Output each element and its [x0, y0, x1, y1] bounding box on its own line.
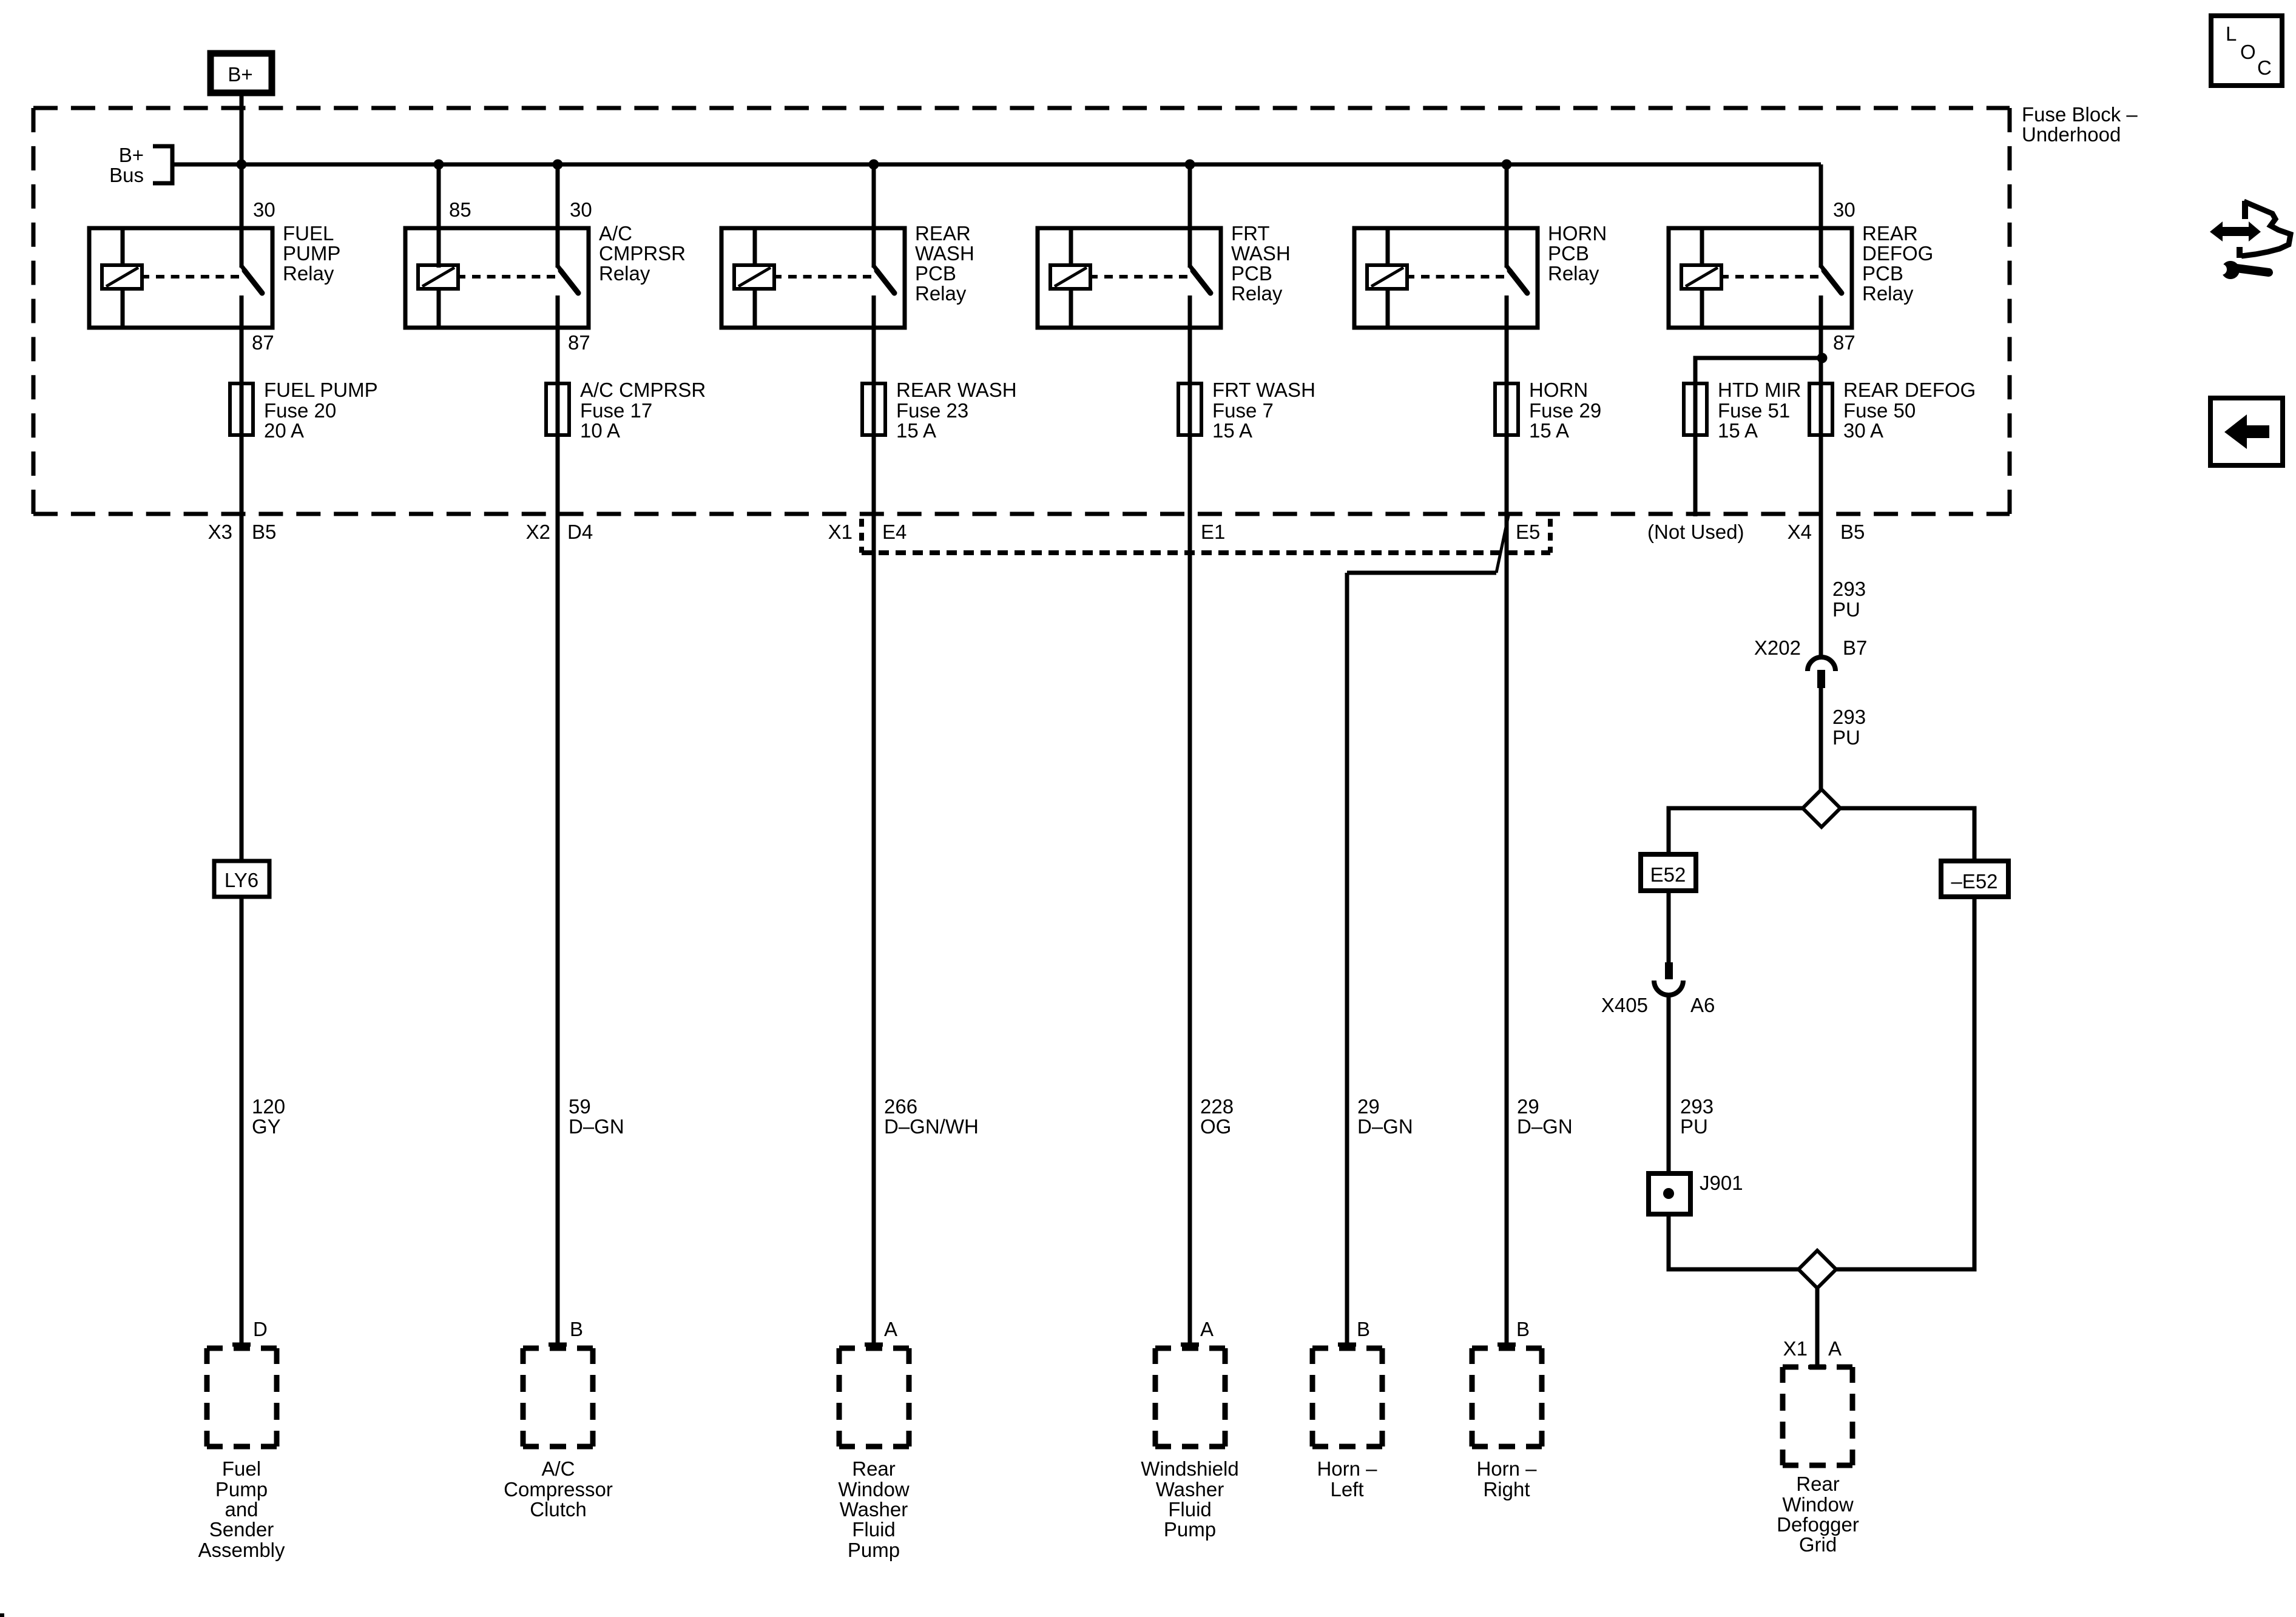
- svg-text:Fluid: Fluid: [852, 1518, 896, 1541]
- fuse FUEL PUMP Fuse 20 20 A: [230, 383, 253, 435]
- svg-text:Pump: Pump: [215, 1478, 268, 1501]
- svg-text:X202: X202: [1754, 636, 1801, 659]
- svg-text:B: B: [1357, 1318, 1370, 1340]
- svg-text:PU: PU: [1832, 726, 1860, 749]
- terminal bar: [1338, 1343, 1356, 1347]
- svg-text:Grid: Grid: [1799, 1533, 1837, 1556]
- wire X202 to splice diamond: [1819, 688, 1823, 791]
- wire B+ bus horizontal: [172, 163, 1821, 167]
- svg-text:293: 293: [1832, 706, 1866, 728]
- svg-text:120: 120: [252, 1095, 285, 1118]
- svg-text:A: A: [1200, 1318, 1214, 1340]
- svg-text:X3: X3: [208, 521, 232, 543]
- wire bus drop to horn relay pin 30: [1505, 164, 1509, 268]
- node bus junction at fuel pump relay: [237, 160, 247, 170]
- wire B+ feed down to bus and fuel pump relay pin 30: [240, 96, 244, 268]
- svg-text:(Not Used): (Not Used): [1647, 521, 1744, 543]
- terminal bar: [1808, 1365, 1826, 1369]
- component box -E52: [1941, 861, 2008, 897]
- label REAR DEFOG PCB Relay: [1862, 222, 1933, 305]
- svg-text:A/C: A/C: [541, 1457, 575, 1480]
- svg-text:15 A: 15 A: [1718, 419, 1758, 442]
- relay REAR DEFOG PCB Relay: [1669, 228, 1852, 328]
- label REAR WASH PCB Relay: [915, 222, 974, 305]
- svg-text:REAR: REAR: [915, 222, 971, 245]
- svg-text:FRT: FRT: [1231, 222, 1270, 245]
- label wire circuit 29: [1517, 1095, 1573, 1138]
- fuse HTD MIR Fuse 51 15 A: [1684, 383, 1707, 435]
- svg-text:59: 59: [569, 1095, 591, 1118]
- svg-text:Relay: Relay: [1231, 282, 1283, 305]
- svg-text:Washer: Washer: [1156, 1478, 1224, 1501]
- svg-text:Bus: Bus: [109, 164, 144, 186]
- svg-text:30: 30: [1833, 198, 1855, 221]
- wire bus drop to A/C relay pin 30: [556, 164, 560, 268]
- svg-text:Windshield: Windshield: [1141, 1457, 1238, 1480]
- component A/C Compressor Clutch dashed box: [523, 1346, 593, 1351]
- svg-text:15 A: 15 A: [896, 419, 936, 442]
- svg-text:Fuse 23: Fuse 23: [896, 399, 968, 422]
- svg-text:Relay: Relay: [1548, 262, 1599, 285]
- wire branch to HTD MIR fuse 51: [1695, 358, 1822, 516]
- svg-text:PU: PU: [1832, 598, 1860, 621]
- svg-text:228: 228: [1200, 1095, 1234, 1118]
- node bus junction at rear wash relay: [869, 160, 879, 170]
- svg-text:E4: E4: [882, 521, 907, 543]
- component Rear Window Defogger Grid dashed box: [1783, 1365, 1852, 1370]
- icon back arrow box: [2210, 398, 2283, 465]
- terminal bar: [1181, 1343, 1199, 1347]
- label wire circuit 293 PU (lower): [1680, 1095, 1714, 1138]
- svg-text:A6: A6: [1690, 994, 1715, 1016]
- label A/C CMPRSR Relay: [599, 222, 686, 285]
- svg-text:D: D: [253, 1318, 268, 1340]
- svg-text:Underhood: Underhood: [2022, 123, 2121, 146]
- wire frt wash relay through fuse 7 to connector E1: [1188, 328, 1192, 1345]
- wire horn left branch horizontal: [1347, 571, 1496, 575]
- svg-text:Fuse 50: Fuse 50: [1843, 399, 1916, 422]
- svg-text:L: L: [2226, 22, 2237, 45]
- svg-text:Fuse 20: Fuse 20: [264, 399, 336, 422]
- svg-text:X405: X405: [1601, 994, 1648, 1016]
- svg-text:X1: X1: [828, 521, 853, 543]
- svg-text:E52: E52: [1650, 863, 1686, 886]
- svg-text:Relay: Relay: [283, 262, 334, 285]
- relay A/C CMPRSR Relay: [405, 228, 589, 328]
- svg-text:HORN: HORN: [1529, 379, 1588, 401]
- B+ bus bracket: [153, 146, 172, 183]
- fuse HORN Fuse 29 15 A: [1495, 383, 1518, 435]
- label wire circuit 120: [252, 1095, 285, 1138]
- svg-text:WASH: WASH: [1231, 242, 1291, 265]
- fuse A/C CMPRSR Fuse 17 10 A: [546, 383, 569, 435]
- label Fuse 7 value: [1212, 379, 1315, 442]
- svg-text:15 A: 15 A: [1529, 419, 1569, 442]
- svg-text:GY: GY: [252, 1115, 281, 1138]
- svg-text:Horn –: Horn –: [1317, 1457, 1377, 1480]
- svg-text:30: 30: [253, 198, 275, 221]
- wire rear wash relay through fuse 23 to connector X1-E4: [872, 328, 876, 1345]
- svg-text:B+: B+: [228, 63, 252, 86]
- relay REAR WASH PCB Relay: [721, 228, 905, 328]
- component Horn Right dashed box: [1472, 1346, 1542, 1351]
- icon vehicle service (double arrow, outline, wrench): [2210, 201, 2291, 279]
- relay HORN PCB Relay: [1354, 228, 1538, 328]
- svg-text:A/C: A/C: [599, 222, 632, 245]
- svg-text:Left: Left: [1330, 1478, 1363, 1501]
- svg-text:Relay: Relay: [915, 282, 967, 305]
- wire J901 to lower splice diamond: [1669, 1214, 1798, 1269]
- label component name: [1141, 1457, 1238, 1541]
- label Fuse 20 value: [264, 379, 378, 442]
- terminal bar: [232, 1343, 251, 1347]
- svg-text:PU: PU: [1680, 1115, 1708, 1138]
- svg-text:20 A: 20 A: [264, 419, 304, 442]
- svg-text:and: and: [225, 1498, 258, 1521]
- label Fuse 29 value: [1529, 379, 1601, 442]
- label Fuse 51 value: [1718, 379, 1801, 442]
- label FRT WASH PCB Relay: [1231, 222, 1291, 305]
- component Windshield Washer Fluid Pump dashed box: [1155, 1346, 1225, 1351]
- label FUEL PUMP Relay: [283, 222, 340, 285]
- wire horn left branch down: [1345, 573, 1349, 1345]
- svg-text:REAR: REAR: [1862, 222, 1918, 245]
- B+ battery positive voltage symbol: [211, 53, 272, 93]
- svg-text:B7: B7: [1843, 636, 1867, 659]
- wire E52 to X405: [1667, 891, 1671, 962]
- wire bus drop to A/C relay pin 85: [437, 164, 441, 268]
- svg-text:Fluid: Fluid: [1168, 1498, 1212, 1521]
- svg-text:LY6: LY6: [225, 869, 258, 891]
- node bus junction at frt wash relay: [1185, 160, 1195, 170]
- svg-text:Assembly: Assembly: [198, 1539, 285, 1561]
- relay FUEL PUMP Relay: [89, 228, 272, 328]
- terminal bar: [1497, 1343, 1516, 1347]
- wire lower splice to rear window defogger grid: [1815, 1288, 1820, 1367]
- svg-text:OG: OG: [1200, 1115, 1231, 1138]
- svg-text:X1: X1: [1783, 1337, 1808, 1360]
- splice diamond upper: [1803, 789, 1840, 827]
- label component name: [838, 1457, 910, 1561]
- svg-text:WASH: WASH: [915, 242, 974, 265]
- label Fuse 50 value: [1843, 379, 1976, 442]
- wire -E52 to lower splice diamond: [1836, 897, 1974, 1269]
- wire rear defog relay 87 to fuse 50: [1819, 328, 1823, 657]
- connector X1 dotted outline: [859, 519, 864, 553]
- svg-text:Window: Window: [838, 1478, 910, 1501]
- svg-text:D–GN: D–GN: [569, 1115, 624, 1138]
- svg-text:D4: D4: [567, 521, 593, 543]
- label component name: [504, 1457, 613, 1521]
- svg-text:10 A: 10 A: [580, 419, 620, 442]
- svg-text:293: 293: [1832, 578, 1866, 600]
- label wire circuit 293 PU (upper): [1832, 578, 1866, 621]
- wire horn splice slant at E5: [1496, 513, 1509, 573]
- svg-text:293: 293: [1680, 1095, 1714, 1118]
- svg-text:J901: J901: [1700, 1172, 1743, 1194]
- svg-text:87: 87: [568, 331, 590, 354]
- wire bus drop to frt wash relay pin 30: [1188, 164, 1192, 268]
- svg-text:15 A: 15 A: [1212, 419, 1252, 442]
- svg-text:Fuse 7: Fuse 7: [1212, 399, 1274, 422]
- label wire circuit 293 PU (middle): [1832, 706, 1866, 749]
- icon LOC reference box: [2211, 16, 2282, 86]
- svg-text:A: A: [884, 1318, 897, 1340]
- svg-text:B: B: [1516, 1318, 1530, 1340]
- svg-text:Fuse 17: Fuse 17: [580, 399, 652, 422]
- wire splice to E52 drop: [1669, 808, 1803, 854]
- svg-text:B: B: [570, 1318, 583, 1340]
- wire bus drop to rear wash relay pin 30: [872, 164, 876, 268]
- inline connector X202 pin B7: [1808, 657, 1835, 671]
- svg-text:FUEL: FUEL: [283, 222, 334, 245]
- svg-text:Fuse Block –: Fuse Block –: [2022, 103, 2138, 126]
- svg-text:Fuse 29: Fuse 29: [1529, 399, 1601, 422]
- svg-text:Pump: Pump: [848, 1539, 900, 1561]
- label wire circuit 228: [1200, 1095, 1234, 1138]
- svg-text:Rear: Rear: [1796, 1473, 1840, 1495]
- wire a/c relay 87 through fuse 17 to connector X2: [556, 328, 560, 1345]
- wire fuel pump relay 87 through fuse 20 to connector X3: [240, 328, 244, 861]
- label Fuse 17 value: [580, 379, 706, 442]
- svg-text:E5: E5: [1516, 521, 1540, 543]
- svg-text:PCB: PCB: [1862, 262, 1903, 285]
- svg-text:A/C CMPRSR: A/C CMPRSR: [580, 379, 706, 401]
- svg-text:29: 29: [1357, 1095, 1380, 1118]
- svg-text:PCB: PCB: [915, 262, 956, 285]
- svg-text:D–GN/WH: D–GN/WH: [884, 1115, 979, 1138]
- svg-text:266: 266: [884, 1095, 917, 1118]
- svg-text:B5: B5: [252, 521, 276, 543]
- svg-text:Sender: Sender: [209, 1518, 274, 1541]
- svg-text:Clutch: Clutch: [530, 1498, 587, 1521]
- svg-text:HORN: HORN: [1548, 222, 1607, 245]
- svg-text:A: A: [1828, 1337, 1842, 1360]
- terminal bar: [549, 1343, 567, 1347]
- label wire circuit 59: [569, 1095, 624, 1138]
- svg-text:PUMP: PUMP: [283, 242, 340, 265]
- component Rear Window Washer Fluid Pump dashed box: [839, 1346, 909, 1351]
- svg-text:REAR WASH: REAR WASH: [896, 379, 1017, 401]
- svg-text:C: C: [2257, 56, 2272, 79]
- label component name: [1317, 1457, 1377, 1501]
- splice J901: [1649, 1173, 1690, 1214]
- svg-text:FRT WASH: FRT WASH: [1212, 379, 1315, 401]
- svg-text:FUEL PUMP: FUEL PUMP: [264, 379, 378, 401]
- node bus junction at horn relay: [1502, 160, 1512, 170]
- svg-text:Window: Window: [1782, 1493, 1854, 1516]
- wire horn relay through fuse 29 to connector E5 and horn right: [1505, 328, 1509, 1345]
- svg-text:30 A: 30 A: [1843, 419, 1883, 442]
- node bus junction at a/c relay coil: [434, 160, 444, 170]
- relay FRT WASH PCB Relay: [1038, 228, 1221, 328]
- svg-text:D–GN: D–GN: [1357, 1115, 1413, 1138]
- svg-text:PCB: PCB: [1231, 262, 1272, 285]
- option code LY6 box: [214, 861, 269, 897]
- terminal bar: [865, 1343, 883, 1347]
- svg-text:30: 30: [570, 198, 592, 221]
- svg-text:Relay: Relay: [599, 262, 650, 285]
- svg-text:X4: X4: [1788, 521, 1812, 543]
- component box E52: [1641, 854, 1696, 891]
- label component name: [1476, 1457, 1537, 1501]
- svg-text:Fuel: Fuel: [222, 1457, 261, 1480]
- label wire circuit 29: [1357, 1095, 1413, 1138]
- svg-text:REAR DEFOG: REAR DEFOG: [1843, 379, 1976, 401]
- node bus junction at a/c relay pin 30: [553, 160, 563, 170]
- wire LY6 to fuel pump connector: [240, 897, 244, 1345]
- page corner mark: [0, 1613, 4, 1617]
- inline connector X405 pin A6: [1665, 962, 1673, 979]
- svg-text:Compressor: Compressor: [504, 1478, 613, 1501]
- svg-text:DEFOG: DEFOG: [1862, 242, 1933, 265]
- svg-text:–E52: –E52: [1951, 870, 1997, 893]
- svg-text:CMPRSR: CMPRSR: [599, 242, 686, 265]
- svg-text:Horn –: Horn –: [1476, 1457, 1537, 1480]
- label component name: [198, 1457, 285, 1561]
- component Fuel Pump and Sender Assembly dashed box: [207, 1346, 277, 1351]
- wire X405 to J901: [1667, 995, 1671, 1173]
- svg-text:Right: Right: [1483, 1478, 1530, 1501]
- fuse block underhood dashed boundary box: [33, 106, 2010, 110]
- svg-text:Washer: Washer: [840, 1498, 908, 1521]
- svg-text:Relay: Relay: [1862, 282, 1914, 305]
- svg-text:HTD MIR: HTD MIR: [1718, 379, 1801, 401]
- fuse REAR DEFOG Fuse 50 30 A: [1809, 383, 1832, 435]
- svg-text:B+: B+: [119, 144, 144, 166]
- svg-text:E1: E1: [1201, 521, 1225, 543]
- label component name: [1777, 1473, 1859, 1556]
- wire bus drop to rear defog relay pin 30: [1819, 164, 1823, 268]
- svg-text:O: O: [2240, 41, 2256, 63]
- label HORN PCB Relay: [1548, 222, 1607, 285]
- svg-text:87: 87: [252, 331, 274, 354]
- splice diamond lower: [1798, 1251, 1836, 1288]
- svg-text:PCB: PCB: [1548, 242, 1589, 265]
- wire splice to -E52 drop: [1840, 808, 1974, 861]
- fuse REAR WASH Fuse 23 15 A: [862, 383, 885, 435]
- svg-text:Rear: Rear: [852, 1457, 896, 1480]
- svg-text:29: 29: [1517, 1095, 1539, 1118]
- label wire circuit 266: [884, 1095, 979, 1138]
- label Fuse 23 value: [896, 379, 1017, 442]
- svg-text:87: 87: [1833, 331, 1855, 354]
- svg-text:X2: X2: [526, 521, 550, 543]
- svg-text:85: 85: [449, 198, 471, 221]
- svg-text:D–GN: D–GN: [1517, 1115, 1573, 1138]
- component Horn Left dashed box: [1312, 1346, 1382, 1351]
- svg-text:Pump: Pump: [1164, 1518, 1216, 1541]
- svg-text:B5: B5: [1840, 521, 1865, 543]
- fuse FRT WASH Fuse 7 15 A: [1178, 383, 1201, 435]
- svg-text:Fuse 51: Fuse 51: [1718, 399, 1790, 422]
- node junction rear defog 87 / htd mir feed: [1817, 353, 1828, 363]
- svg-text:Defogger: Defogger: [1777, 1513, 1859, 1536]
